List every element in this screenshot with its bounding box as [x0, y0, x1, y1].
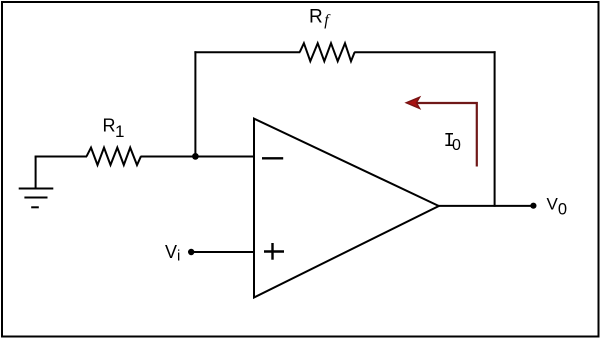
node V0 output terminal — [530, 203, 536, 209]
wire: Vi to non-inverting input — [191, 251, 254, 253]
pin label: non-inverting input (+) — [264, 250, 284, 252]
wire: top rail right of Rf — [354, 51, 495, 53]
node Vi terminal — [188, 249, 194, 255]
svg-text:0: 0 — [452, 137, 461, 154]
wire: R1 to inverting input — [141, 156, 255, 158]
wire: feedback riser (junction up to top rail) — [194, 51, 196, 157]
ground — [19, 157, 54, 208]
wire: right drop to output — [494, 51, 496, 207]
wire: output — [437, 205, 534, 207]
op-amp U1 — [254, 119, 439, 298]
resistor R1 — [87, 148, 141, 165]
current arrow I0 — [406, 97, 477, 166]
pin label: inverting input (-) — [262, 157, 283, 159]
resistor Rf — [300, 43, 355, 61]
wire: top rail left of Rf — [194, 51, 300, 53]
wire: ground to R1 — [35, 156, 87, 158]
node: inverting input junction — [192, 153, 199, 160]
